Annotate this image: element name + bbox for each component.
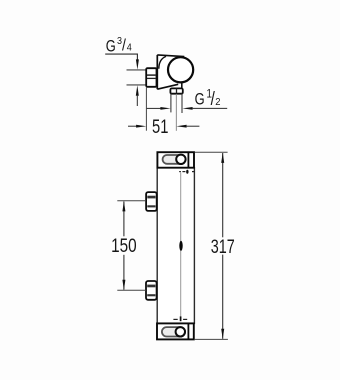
valve body bottom edge <box>157 84 178 89</box>
bar body <box>157 168 194 324</box>
G 3/4 leader line (underline + elbow) <box>105 54 137 60</box>
dimension 51 <box>128 117 199 138</box>
dimension 317 <box>211 153 235 339</box>
bottom cap handle stadium <box>162 327 185 336</box>
outlet neck <box>181 83 183 89</box>
outlet centerline <box>175 94 177 131</box>
G 3/4 up arrow <box>136 85 139 95</box>
thermostat knob circle (top view) <box>168 57 193 82</box>
top cap divider <box>187 152 189 168</box>
svg-text:51: 51 <box>152 117 168 138</box>
valve body wedge fill (top view) <box>157 55 184 89</box>
dimension 51 left extension line <box>145 88 147 131</box>
centerline (front view) <box>180 173 182 319</box>
G 1/2 dimension arrows <box>146 107 161 109</box>
valve body left edge <box>156 55 158 89</box>
bottom cap (front view) <box>157 323 194 339</box>
outlet connector <box>170 88 182 93</box>
svg-text:4: 4 <box>127 42 132 54</box>
svg-text:G: G <box>195 91 205 109</box>
bottom center mark <box>173 318 187 320</box>
mid centerline dot <box>179 241 182 251</box>
top center mark <box>179 171 194 173</box>
svg-text:/: / <box>211 87 215 109</box>
top cap handle stadium <box>163 155 186 164</box>
dimension 150 lower extension line <box>117 289 146 291</box>
dimension 317 upper extension line <box>195 151 228 153</box>
inlet stub outline <box>127 69 147 71</box>
G 1/2 thread label <box>195 87 221 109</box>
body fillet arc <box>159 56 166 68</box>
dimension 150 upper extension line <box>117 200 146 202</box>
svg-text:/: / <box>122 36 127 54</box>
G 3/4 down arrow <box>136 59 139 69</box>
svg-text:150: 150 <box>111 236 137 257</box>
dimension 150 <box>111 201 137 290</box>
bottom cap knob circle <box>176 327 185 336</box>
top cap knob circle <box>176 155 185 164</box>
dimension 317 lower extension line <box>194 338 228 340</box>
union nut (top view) <box>146 68 156 87</box>
valve body top edge (tangent over knob) <box>157 55 184 57</box>
svg-text:2: 2 <box>215 97 221 109</box>
svg-text:G: G <box>106 38 116 56</box>
lower union nut (front view) <box>146 281 157 300</box>
outlet pipe <box>170 94 172 113</box>
svg-text:317: 317 <box>211 237 235 258</box>
upper union nut (front view) <box>146 192 157 211</box>
G 3/4 thread label <box>106 36 132 56</box>
top cap (front view) <box>157 152 194 168</box>
bottom cap divider <box>187 323 189 339</box>
